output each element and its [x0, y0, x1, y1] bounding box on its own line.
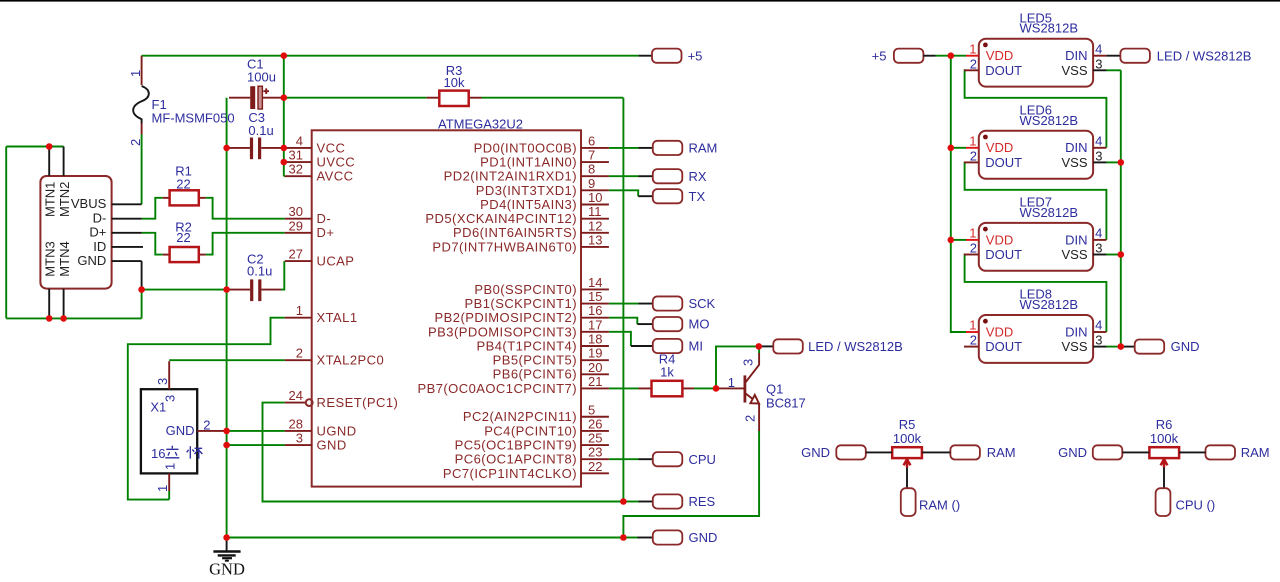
wire R2 to IC D+ — [206, 233, 285, 255]
svg-text:5: 5 — [588, 402, 595, 417]
wire LED5 VSS — [1106, 69, 1121, 71]
op IC U1 ATMEGA32U2 body — [312, 116, 581, 486]
svg-text:WS2812B: WS2812B — [1020, 21, 1079, 36]
svg-text:PD2(INT2AIN1RXD1): PD2(INT2AIN1RXD1) — [444, 169, 577, 184]
net label RAM (R6 right) — [1206, 445, 1270, 460]
svg-text:PD6(INT6AIN5RTS): PD6(INT6AIN5RTS) — [453, 225, 577, 240]
svg-text:28: 28 — [289, 416, 303, 431]
X1 pin 1 stub — [168, 473, 170, 491]
X1 pin 3 stub — [168, 361, 170, 389]
svg-text:2: 2 — [203, 418, 210, 433]
IC pin 2 XTAL2PC0 — [285, 346, 384, 368]
svg-text:D-: D- — [93, 211, 107, 226]
IC LED6 WS2812B — [964, 102, 1106, 178]
svg-text:3: 3 — [1095, 148, 1102, 163]
svg-text:VSS: VSS — [1061, 247, 1087, 262]
IC pin 12 PD6(INT6AIN5RTS) — [453, 218, 609, 240]
wire C1 right tail — [281, 97, 284, 99]
svg-text:1: 1 — [155, 485, 170, 492]
wire usb mount bottom rail — [6, 317, 141, 319]
fuse F1 MF-MSMF050 — [128, 56, 235, 146]
top window border — [0, 0, 1280, 2]
wire usb mount top rail — [6, 146, 63, 148]
svg-text:GND: GND — [801, 445, 830, 460]
svg-text:RES: RES — [689, 494, 716, 509]
svg-text:1: 1 — [728, 375, 735, 390]
svg-text:Q1: Q1 — [766, 381, 783, 396]
svg-text:6: 6 — [588, 133, 595, 148]
svg-text:D-: D- — [317, 211, 332, 226]
svg-text:GND: GND — [689, 530, 718, 545]
svg-text:3: 3 — [1095, 241, 1102, 256]
IC LED5 WS2812B — [964, 10, 1106, 86]
wire GND label stub — [623, 537, 637, 539]
svg-text:4: 4 — [1095, 318, 1102, 333]
net label CPU — [653, 452, 716, 467]
capacitor C3 0.1u — [229, 110, 281, 159]
IC pin 9 PD3(INT3TXD1) — [476, 176, 609, 198]
svg-text:10k: 10k — [444, 75, 465, 90]
svg-text:15: 15 — [588, 289, 602, 304]
svg-text:CPU (): CPU () — [1176, 498, 1216, 513]
wire LED7 VDD feed — [951, 239, 966, 241]
svg-text:DIN: DIN — [1065, 324, 1087, 339]
svg-text:31: 31 — [289, 148, 303, 163]
net label CPU () (R6 wiper) — [1156, 488, 1216, 516]
IC pin 19 PB5(PCINT5) — [493, 346, 609, 368]
svg-text:WS2812B: WS2812B — [1020, 113, 1079, 128]
capacitor C1 100u polarized — [229, 57, 281, 110]
IC pin 31 UVCC — [285, 148, 355, 170]
svg-text:GND: GND — [209, 560, 245, 579]
ground symbol — [209, 539, 245, 579]
wire usb gnd vertical — [141, 290, 143, 319]
svg-text:3: 3 — [1095, 333, 1102, 348]
svg-text:WS2812B: WS2812B — [1020, 205, 1079, 220]
capacitor C2 0.1u — [229, 252, 281, 302]
net label TX — [653, 189, 706, 204]
IC pin 1 XTAL1 — [285, 303, 358, 325]
svg-text:PD5(XCKAIN4PCINT12): PD5(XCKAIN4PCINT12) — [425, 211, 577, 226]
svg-text:RESET(PC1): RESET(PC1) — [317, 395, 399, 410]
svg-text:23: 23 — [588, 445, 602, 460]
wire C3 tails — [227, 147, 229, 149]
node junctions — [46, 52, 1124, 540]
wire LED8 VSS to GND label — [1121, 346, 1135, 348]
IC pin 4 VCC — [285, 133, 346, 155]
svg-text:22: 22 — [176, 230, 190, 245]
svg-text:100u: 100u — [247, 70, 276, 85]
svg-text:24: 24 — [289, 388, 303, 403]
wire UGND row — [227, 430, 285, 432]
IC pin 6 PD0(INT0OC0B) — [474, 133, 609, 155]
potentiometer R5 100k — [892, 417, 922, 468]
IC pin 15 PB1(SCKPCINT1) — [465, 289, 609, 311]
svg-text:26: 26 — [588, 416, 602, 431]
IC pin 30 D- — [285, 204, 331, 226]
svg-text:VBUS: VBUS — [71, 196, 107, 211]
IC pin 18 PB4(T1PCINT4) — [477, 332, 609, 354]
svg-text:DIN: DIN — [1065, 232, 1087, 247]
wire LED VSS vertical rail — [1120, 70, 1122, 346]
wire Q1 emitter to GND — [623, 431, 759, 538]
wire LED5 DOUT to LED6 DIN — [965, 70, 1107, 148]
svg-text:SCK: SCK — [689, 296, 716, 311]
svg-text:VSS: VSS — [1061, 63, 1087, 78]
IC pin 22 PC7(ICP1INT4CLKO) — [443, 459, 609, 481]
svg-text:2: 2 — [296, 346, 303, 361]
svg-text:2: 2 — [128, 139, 143, 146]
IC pin 5 PC2(AIN2PCIN11) — [463, 402, 609, 424]
wire LED VDD vertical rail — [951, 56, 966, 332]
svg-text:PC7(ICP1INT4CLKO): PC7(ICP1INT4CLKO) — [443, 466, 577, 481]
svg-text:18: 18 — [588, 332, 602, 347]
IC pin 14 PB0(SSPCINT0) — [474, 275, 609, 297]
svg-text:22: 22 — [176, 176, 190, 191]
svg-text:GND: GND — [1058, 445, 1087, 460]
net label SCK — [653, 296, 716, 311]
IC pin 21 PB7(OC0AOC1CPCINT7) — [417, 374, 608, 396]
net label RAM () (R5 wiper) — [901, 488, 960, 516]
svg-text:11: 11 — [588, 204, 602, 219]
svg-text:RX: RX — [689, 169, 707, 184]
net label +5 (left) — [652, 48, 702, 63]
svg-text:25: 25 — [588, 431, 602, 446]
wire +5 to LED rail — [923, 55, 935, 57]
svg-text:3: 3 — [1095, 56, 1102, 71]
svg-text:13: 13 — [588, 232, 602, 247]
svg-text:3: 3 — [296, 431, 303, 446]
wire LED6 VDD feed — [951, 147, 966, 149]
wire R5 wiper — [906, 468, 908, 489]
IC pin 13 PD7(INT7HWBAIN6T0) — [432, 232, 609, 254]
svg-text:21: 21 — [588, 374, 602, 389]
net label GND (LED8 VSS) — [1135, 339, 1200, 354]
svg-text:4: 4 — [296, 133, 303, 148]
svg-text:MTN4: MTN4 — [57, 241, 72, 276]
svg-text:32: 32 — [289, 162, 303, 177]
wire LED6 DOUT to LED7 DIN — [965, 162, 1107, 240]
X1 value CJK glyphs (drawn) — [165, 446, 202, 459]
wire LED8 VSS — [1106, 346, 1121, 348]
svg-text:D+: D+ — [317, 225, 335, 240]
net label RAM (R5 right) — [950, 445, 1015, 460]
IC pin 29 D+ — [285, 218, 335, 240]
net label +5 (LED rail) — [872, 48, 924, 63]
wire +5 top rail — [142, 55, 639, 57]
svg-text:ID: ID — [93, 239, 106, 254]
svg-text:29: 29 — [289, 218, 303, 233]
IC pin 27 UCAP — [285, 247, 355, 269]
svg-text:3: 3 — [741, 359, 756, 366]
wire reset rail right of R3 — [482, 97, 624, 99]
wire gnd to C2 — [142, 289, 229, 291]
resistor R4 1k — [639, 352, 695, 397]
svg-text:MO: MO — [689, 317, 710, 332]
svg-text:VSS: VSS — [1061, 155, 1087, 170]
svg-text:PB5(PCINT5): PB5(PCINT5) — [493, 353, 577, 368]
svg-text:DOUT: DOUT — [985, 339, 1022, 354]
crystal X1 16MHz — [141, 361, 227, 492]
svg-text:VDD: VDD — [986, 324, 1013, 339]
svg-text:PD7(INT7HWBAIN6T0): PD7(INT7HWBAIN6T0) — [432, 239, 577, 254]
net label MO — [653, 317, 710, 332]
svg-text:1: 1 — [969, 134, 976, 149]
IC pin 24 RESET(PC1) — [285, 388, 398, 410]
svg-text:1: 1 — [128, 70, 143, 77]
svg-text:100k: 100k — [1150, 431, 1179, 446]
wire AVCC corner — [284, 175, 285, 177]
wire LED7 VSS — [1106, 254, 1121, 256]
svg-text:DOUT: DOUT — [985, 155, 1022, 170]
IC LED8 WS2812B — [964, 287, 1106, 363]
svg-text:PD1(INT1AIN0): PD1(INT1AIN0) — [480, 154, 577, 169]
transistor Q1 BC817 — [716, 353, 806, 431]
svg-text:2: 2 — [970, 56, 977, 71]
IC pin 17 PB3(PDOMISOPCINT3) — [428, 317, 609, 339]
IC pin 3 GND — [285, 431, 347, 453]
resistor R3 10k — [427, 63, 482, 106]
svg-text:DIN: DIN — [1065, 48, 1087, 63]
wire X1 pin1 green tail — [168, 491, 170, 500]
svg-text:3: 3 — [155, 378, 170, 385]
wire R6 wiper — [1163, 468, 1165, 489]
svg-text:VCC: VCC — [317, 140, 346, 155]
svg-text:0.1u: 0.1u — [247, 264, 272, 279]
wire reset rail y=97.7 left of R3 — [284, 97, 427, 99]
svg-text:1: 1 — [296, 303, 303, 318]
svg-text:MTN2: MTN2 — [57, 182, 72, 217]
svg-text:MF-MSMF050: MF-MSMF050 — [152, 111, 235, 126]
resistor R1 22 — [163, 164, 206, 206]
svg-text:PB1(SCKPCINT1): PB1(SCKPCINT1) — [465, 296, 578, 311]
svg-text:4: 4 — [1095, 226, 1102, 241]
wire D- to R1 — [142, 198, 163, 219]
svg-text:PC4(PCINT10): PC4(PCINT10) — [484, 423, 577, 438]
wire pin16 to MO — [609, 318, 637, 324]
svg-text:0.1u: 0.1u — [248, 123, 273, 138]
net label LED / WS2812B (Q1) — [773, 339, 902, 354]
svg-text:RAM: RAM — [1241, 445, 1270, 460]
svg-text:VDD: VDD — [986, 48, 1013, 63]
svg-text:PD3(INT3TXD1): PD3(INT3TXD1) — [476, 183, 577, 198]
wire pin23 to CPU — [609, 458, 639, 460]
svg-text:D+: D+ — [89, 225, 106, 240]
wire R5 right — [922, 451, 951, 453]
svg-text:X1: X1 — [150, 400, 166, 415]
wire +5 vertical to C1/VCC — [283, 56, 285, 177]
net label GND (R6) — [1058, 445, 1122, 460]
wire XTAL2 row to X1 pin3 — [169, 359, 285, 361]
svg-text:MI: MI — [689, 339, 703, 354]
potentiometer R6 100k — [1149, 417, 1179, 468]
wire +5 label stub — [639, 55, 652, 57]
wire R1 to IC D- — [206, 198, 285, 219]
IC pin 16 PB2(PDIMOSIPCINT2) — [435, 303, 609, 325]
svg-text:BC817: BC817 — [766, 395, 806, 410]
IC LED7 WS2812B — [964, 195, 1106, 271]
net label RAM — [653, 141, 718, 156]
IC pin 20 PB6(PCINT6) — [493, 360, 609, 382]
IC pin 32 AVCC — [285, 162, 354, 184]
wire RESET net — [263, 403, 624, 502]
net label GND (R5) — [801, 445, 866, 460]
svg-text:GND: GND — [77, 253, 106, 268]
svg-text:8: 8 — [588, 162, 595, 177]
X1 pin 2 stub — [197, 430, 226, 432]
svg-text:10: 10 — [588, 190, 602, 205]
wire LED7 DOUT to LED8 DIN — [965, 255, 1107, 333]
svg-text:XTAL2PC0: XTAL2PC0 — [317, 353, 385, 368]
svg-text:GND: GND — [1171, 339, 1200, 354]
wire bottom GND rail — [227, 537, 624, 539]
svg-text:PD0(INT0OC0B): PD0(INT0OC0B) — [474, 140, 577, 155]
svg-text:2: 2 — [970, 148, 977, 163]
wire D+ to R2 — [142, 233, 163, 255]
IC pin 10 PD4(INT5AIN3) — [480, 190, 609, 212]
wire pin9 to TX — [609, 190, 638, 196]
svg-text:PC6(OC1APCINT8): PC6(OC1APCINT8) — [455, 452, 577, 467]
svg-text:1: 1 — [969, 41, 976, 56]
svg-text:19: 19 — [588, 346, 602, 361]
svg-text:UVCC: UVCC — [317, 154, 356, 169]
IC pin 26 PC4(PCINT10) — [484, 416, 609, 438]
IC pin 23 PC6(OC1APCINT8) — [455, 445, 609, 467]
svg-text:9: 9 — [588, 176, 595, 191]
wire pin8 to RX — [609, 175, 639, 177]
svg-text:PB7(OC0AOC1CPCINT7): PB7(OC0AOC1CPCINT7) — [417, 381, 577, 396]
svg-text:RAM: RAM — [689, 141, 718, 156]
svg-text:1k: 1k — [660, 365, 674, 380]
svg-text:GND: GND — [317, 437, 347, 452]
svg-text:4: 4 — [1095, 41, 1102, 56]
net label RES — [653, 494, 716, 509]
wire LED6 VSS — [1106, 161, 1121, 163]
svg-text:2: 2 — [970, 241, 977, 256]
wire UCAP to C2 — [281, 261, 284, 290]
wire R6 left — [1122, 451, 1149, 453]
svg-text:PB2(PDIMOSIPCINT2): PB2(PDIMOSIPCINT2) — [435, 310, 577, 325]
svg-text:DIN: DIN — [1065, 140, 1087, 155]
svg-text:MTN3: MTN3 — [43, 241, 58, 276]
svg-text:PC5(OC1BPCINT9): PC5(OC1BPCINT9) — [455, 437, 577, 452]
svg-text:DOUT: DOUT — [985, 247, 1022, 262]
svg-text:27: 27 — [289, 247, 303, 262]
wire GND row pin3 — [227, 444, 285, 446]
IC pin 28 UGND — [285, 416, 357, 438]
wire pin15 to SCK — [609, 303, 639, 305]
svg-text:PB6(PCINT6): PB6(PCINT6) — [493, 367, 577, 382]
svg-text:PD4(INT5AIN3): PD4(INT5AIN3) — [480, 197, 577, 212]
svg-text:17: 17 — [588, 317, 602, 332]
svg-text:CPU: CPU — [689, 452, 716, 467]
IC pin 7 PD1(INT1AIN0) — [480, 148, 609, 170]
svg-text:XTAL1: XTAL1 — [317, 310, 358, 325]
svg-text:PB3(PDOMISOPCINT3): PB3(PDOMISOPCINT3) — [428, 324, 577, 339]
svg-text:22: 22 — [588, 459, 602, 474]
IC pin 8 PD2(INT2AIN1RXD1) — [444, 162, 609, 184]
wire R5 left — [866, 451, 892, 453]
svg-text:ATMEGA32U2: ATMEGA32U2 — [438, 116, 523, 131]
svg-text:VSS: VSS — [1061, 339, 1087, 354]
IC pin 11 PD5(XCKAIN4PCINT12) — [425, 204, 608, 226]
svg-text:4: 4 — [1095, 134, 1102, 149]
svg-text:R6: R6 — [1156, 417, 1173, 432]
svg-text:16: 16 — [588, 303, 602, 318]
svg-text:WS2812B: WS2812B — [1020, 297, 1079, 312]
wire pin21 to R4 — [609, 387, 639, 389]
svg-text:+5: +5 — [872, 48, 887, 63]
svg-text:TX: TX — [689, 189, 706, 204]
svg-text:1: 1 — [969, 226, 976, 241]
svg-text:1: 1 — [163, 463, 178, 470]
wire R6 right — [1179, 451, 1205, 453]
svg-text:PB0(SSPCINT0): PB0(SSPCINT0) — [474, 282, 577, 297]
svg-text:12: 12 — [588, 218, 602, 233]
wire junction to LED label net — [716, 346, 759, 388]
svg-text:RAM (): RAM () — [919, 498, 960, 513]
wire XTAL1 to X1 pin1 — [128, 318, 285, 500]
wire LED5 DIN to label — [1106, 55, 1120, 57]
svg-text:PC2(AIN2PCIN11): PC2(AIN2PCIN11) — [463, 409, 577, 424]
wire reset vertical x=623.4 — [622, 98, 624, 502]
svg-text:RAM: RAM — [987, 445, 1016, 460]
svg-text:14: 14 — [588, 275, 602, 290]
svg-text:DOUT: DOUT — [985, 63, 1022, 78]
svg-text:20: 20 — [588, 360, 602, 375]
net label GND — [653, 530, 718, 545]
svg-text:LED / WS2812B: LED / WS2812B — [1157, 48, 1252, 63]
net label MI — [653, 339, 703, 354]
svg-text:R5: R5 — [899, 417, 916, 432]
svg-text:2: 2 — [743, 415, 758, 422]
wire F1 to VBUS — [141, 135, 143, 205]
svg-text:PB4(T1PCINT4): PB4(T1PCINT4) — [477, 338, 577, 353]
svg-text:7: 7 — [588, 148, 595, 163]
svg-text:VDD: VDD — [986, 232, 1013, 247]
net label RX — [653, 169, 707, 184]
svg-text:AVCC: AVCC — [317, 169, 354, 184]
wire gnd left vertical x=226.6 — [226, 98, 228, 538]
svg-text:100k: 100k — [893, 431, 922, 446]
svg-text:+5: +5 — [688, 48, 703, 63]
wire pin17 to MI — [609, 332, 631, 346]
svg-text:MTN1: MTN1 — [43, 182, 58, 217]
svg-text:16: 16 — [151, 446, 165, 461]
wire pin6 to RAM — [609, 147, 639, 149]
svg-text:1: 1 — [969, 318, 976, 333]
svg-text:UGND: UGND — [317, 423, 357, 438]
svg-text:LED / WS2812B: LED / WS2812B — [808, 339, 903, 354]
svg-text:VDD: VDD — [986, 140, 1013, 155]
svg-text:2: 2 — [970, 333, 977, 348]
resistor R2 22 — [163, 219, 206, 262]
wire usb mount left vertical — [5, 147, 7, 319]
svg-text:30: 30 — [289, 204, 303, 219]
svg-text:GND: GND — [166, 423, 195, 438]
IC pin 25 PC5(OC1BPCINT9) — [455, 431, 609, 453]
connector USB MTN/VBUS — [40, 147, 143, 319]
svg-text:UCAP: UCAP — [317, 254, 355, 269]
net label LED / WS2812B (LED5 DIN) — [1120, 48, 1251, 63]
wire R4 to base junction — [694, 387, 716, 389]
wire RES to label — [623, 501, 638, 503]
wire Q1 collector tail — [758, 346, 760, 353]
